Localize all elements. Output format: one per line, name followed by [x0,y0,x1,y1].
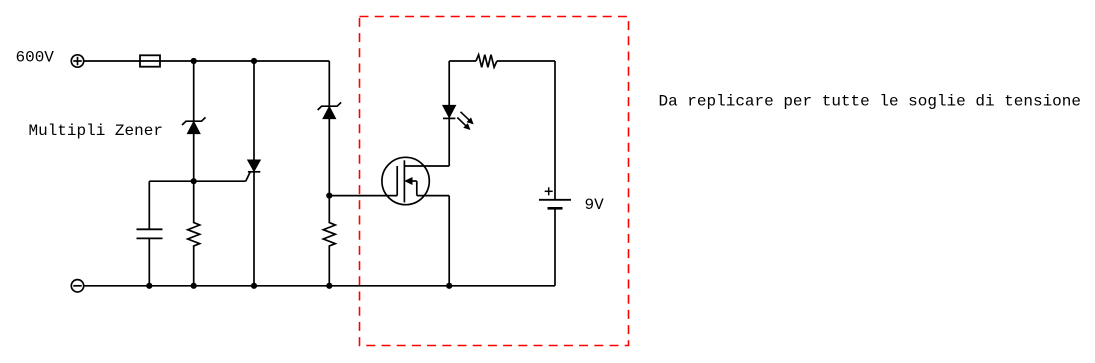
node gate wire at x=193.7 [191,178,197,184]
resistor R2 [323,222,335,248]
terminal positive 600V input [71,55,83,67]
node top rail at x=193.5 [191,58,197,64]
battery B1 9V [539,187,571,208]
wire top inside box right [497,60,555,62]
wire battery top vertical [554,61,556,200]
node bottom rail at x=329.3 [326,283,332,289]
terminal negative [71,280,83,292]
zener diode DZ1 [182,117,206,133]
wire bottom rail [84,285,450,287]
wire top rail [84,60,330,62]
node bottom rail at x=149.3 [146,283,152,289]
wire LED branch vertical [448,61,450,166]
wire branch 2 vertical [253,61,255,286]
wire capacitor branch bottom [148,238,150,285]
resistor R3 [476,55,497,68]
LED D1 [443,105,473,129]
wire branch 1 vertical lower [193,247,195,286]
SCR Q1 [246,160,261,181]
wire bottom inside box [449,285,555,287]
wire branch 1 vertical upper [193,61,195,222]
svg-text:9V: 9V [585,196,605,214]
wire top inside box left [449,60,476,62]
fuse F1 [140,55,160,66]
svg-text:Multipli Zener: Multipli Zener [29,122,163,140]
node MOSFET gate wire at x=329.3 [326,193,332,199]
wire gate horizontal [149,180,245,182]
node bottom rail at x=449.2 [446,283,452,289]
svg-text:Da replicare per tutte le sogl: Da replicare per tutte le soglie di tens… [659,93,1081,111]
MOSFET Q2 [382,157,449,204]
node bottom rail at x=254 [251,283,257,289]
node top rail at x=254 [251,58,257,64]
replication boundary dashed box [360,17,629,346]
svg-text:600V: 600V [16,49,55,67]
wire MOSFET source vertical [448,196,450,286]
wire branch 3 vertical lower [328,247,330,286]
wire branch 3 vertical upper [328,61,330,222]
node bottom rail at x=193.7 [191,283,197,289]
wire capacitor branch top [148,181,150,229]
resistor R1 [188,222,200,248]
wire MOSFET gate lead [329,195,397,197]
wire battery bottom vertical [554,208,556,285]
capacitor C1 [137,229,163,238]
zener diode DZ2 [318,102,342,118]
